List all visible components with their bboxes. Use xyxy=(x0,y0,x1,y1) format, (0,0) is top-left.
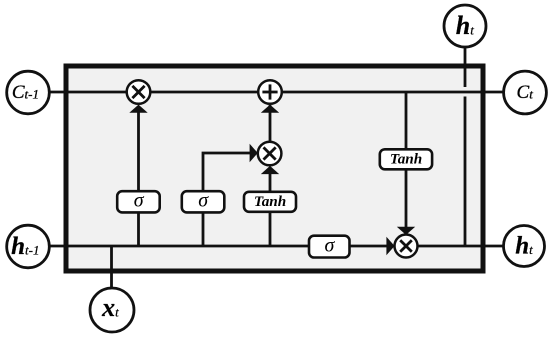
wire: xt input riser xyxy=(110,246,113,290)
wire: ht top branch lower segment (gap at cell-state crossing) xyxy=(464,97,467,247)
gate: forget sigma box xyxy=(117,189,160,212)
wire: candidate tanh column xyxy=(269,167,272,246)
svg-text:σ: σ xyxy=(198,189,209,211)
wire: cell-state line Ct-1 to Ct xyxy=(28,91,525,94)
node Ct xyxy=(504,71,547,114)
wire: ht top branch upper segment xyxy=(464,46,467,87)
wire: output tanh column xyxy=(405,92,408,246)
wire: hidden-state line ht-1 to ht xyxy=(28,245,524,248)
gate: candidate Tanh box xyxy=(244,192,296,212)
node ht top xyxy=(444,5,486,47)
node ht right xyxy=(504,226,545,267)
LSTM cell body box xyxy=(66,66,483,271)
gate: input sigma box xyxy=(182,189,225,212)
gate: output sigma box xyxy=(309,234,350,257)
node Ct-1 xyxy=(7,71,50,114)
arrowhead into output multiplier (from left) xyxy=(386,237,394,255)
wire: multiplier to adder xyxy=(269,105,272,143)
svg-text:σ: σ xyxy=(324,234,335,256)
node xt xyxy=(90,288,134,332)
operator: output multiply circle xyxy=(395,235,418,258)
arrowhead into input multiplier (from below) xyxy=(261,166,279,174)
arrowhead into forget multiplier xyxy=(129,105,147,113)
wire: forget-gate column xyxy=(137,106,140,246)
operator: add circle xyxy=(258,80,282,104)
arrowhead into adder xyxy=(261,105,279,113)
svg-text:σ: σ xyxy=(134,189,145,211)
arrowhead into input multiplier (from left) xyxy=(250,144,258,162)
operator: forget multiply circle xyxy=(127,80,151,104)
svg-text:Tanh: Tanh xyxy=(390,150,422,167)
svg-text:Tanh: Tanh xyxy=(254,193,286,210)
operator: input multiply circle xyxy=(258,142,282,166)
node ht-1 xyxy=(7,225,50,268)
wire: input-gate column with elbow to multiplier xyxy=(203,153,252,246)
arrowhead into output multiplier (from above) xyxy=(397,227,415,235)
gate: output Tanh box xyxy=(380,149,432,169)
